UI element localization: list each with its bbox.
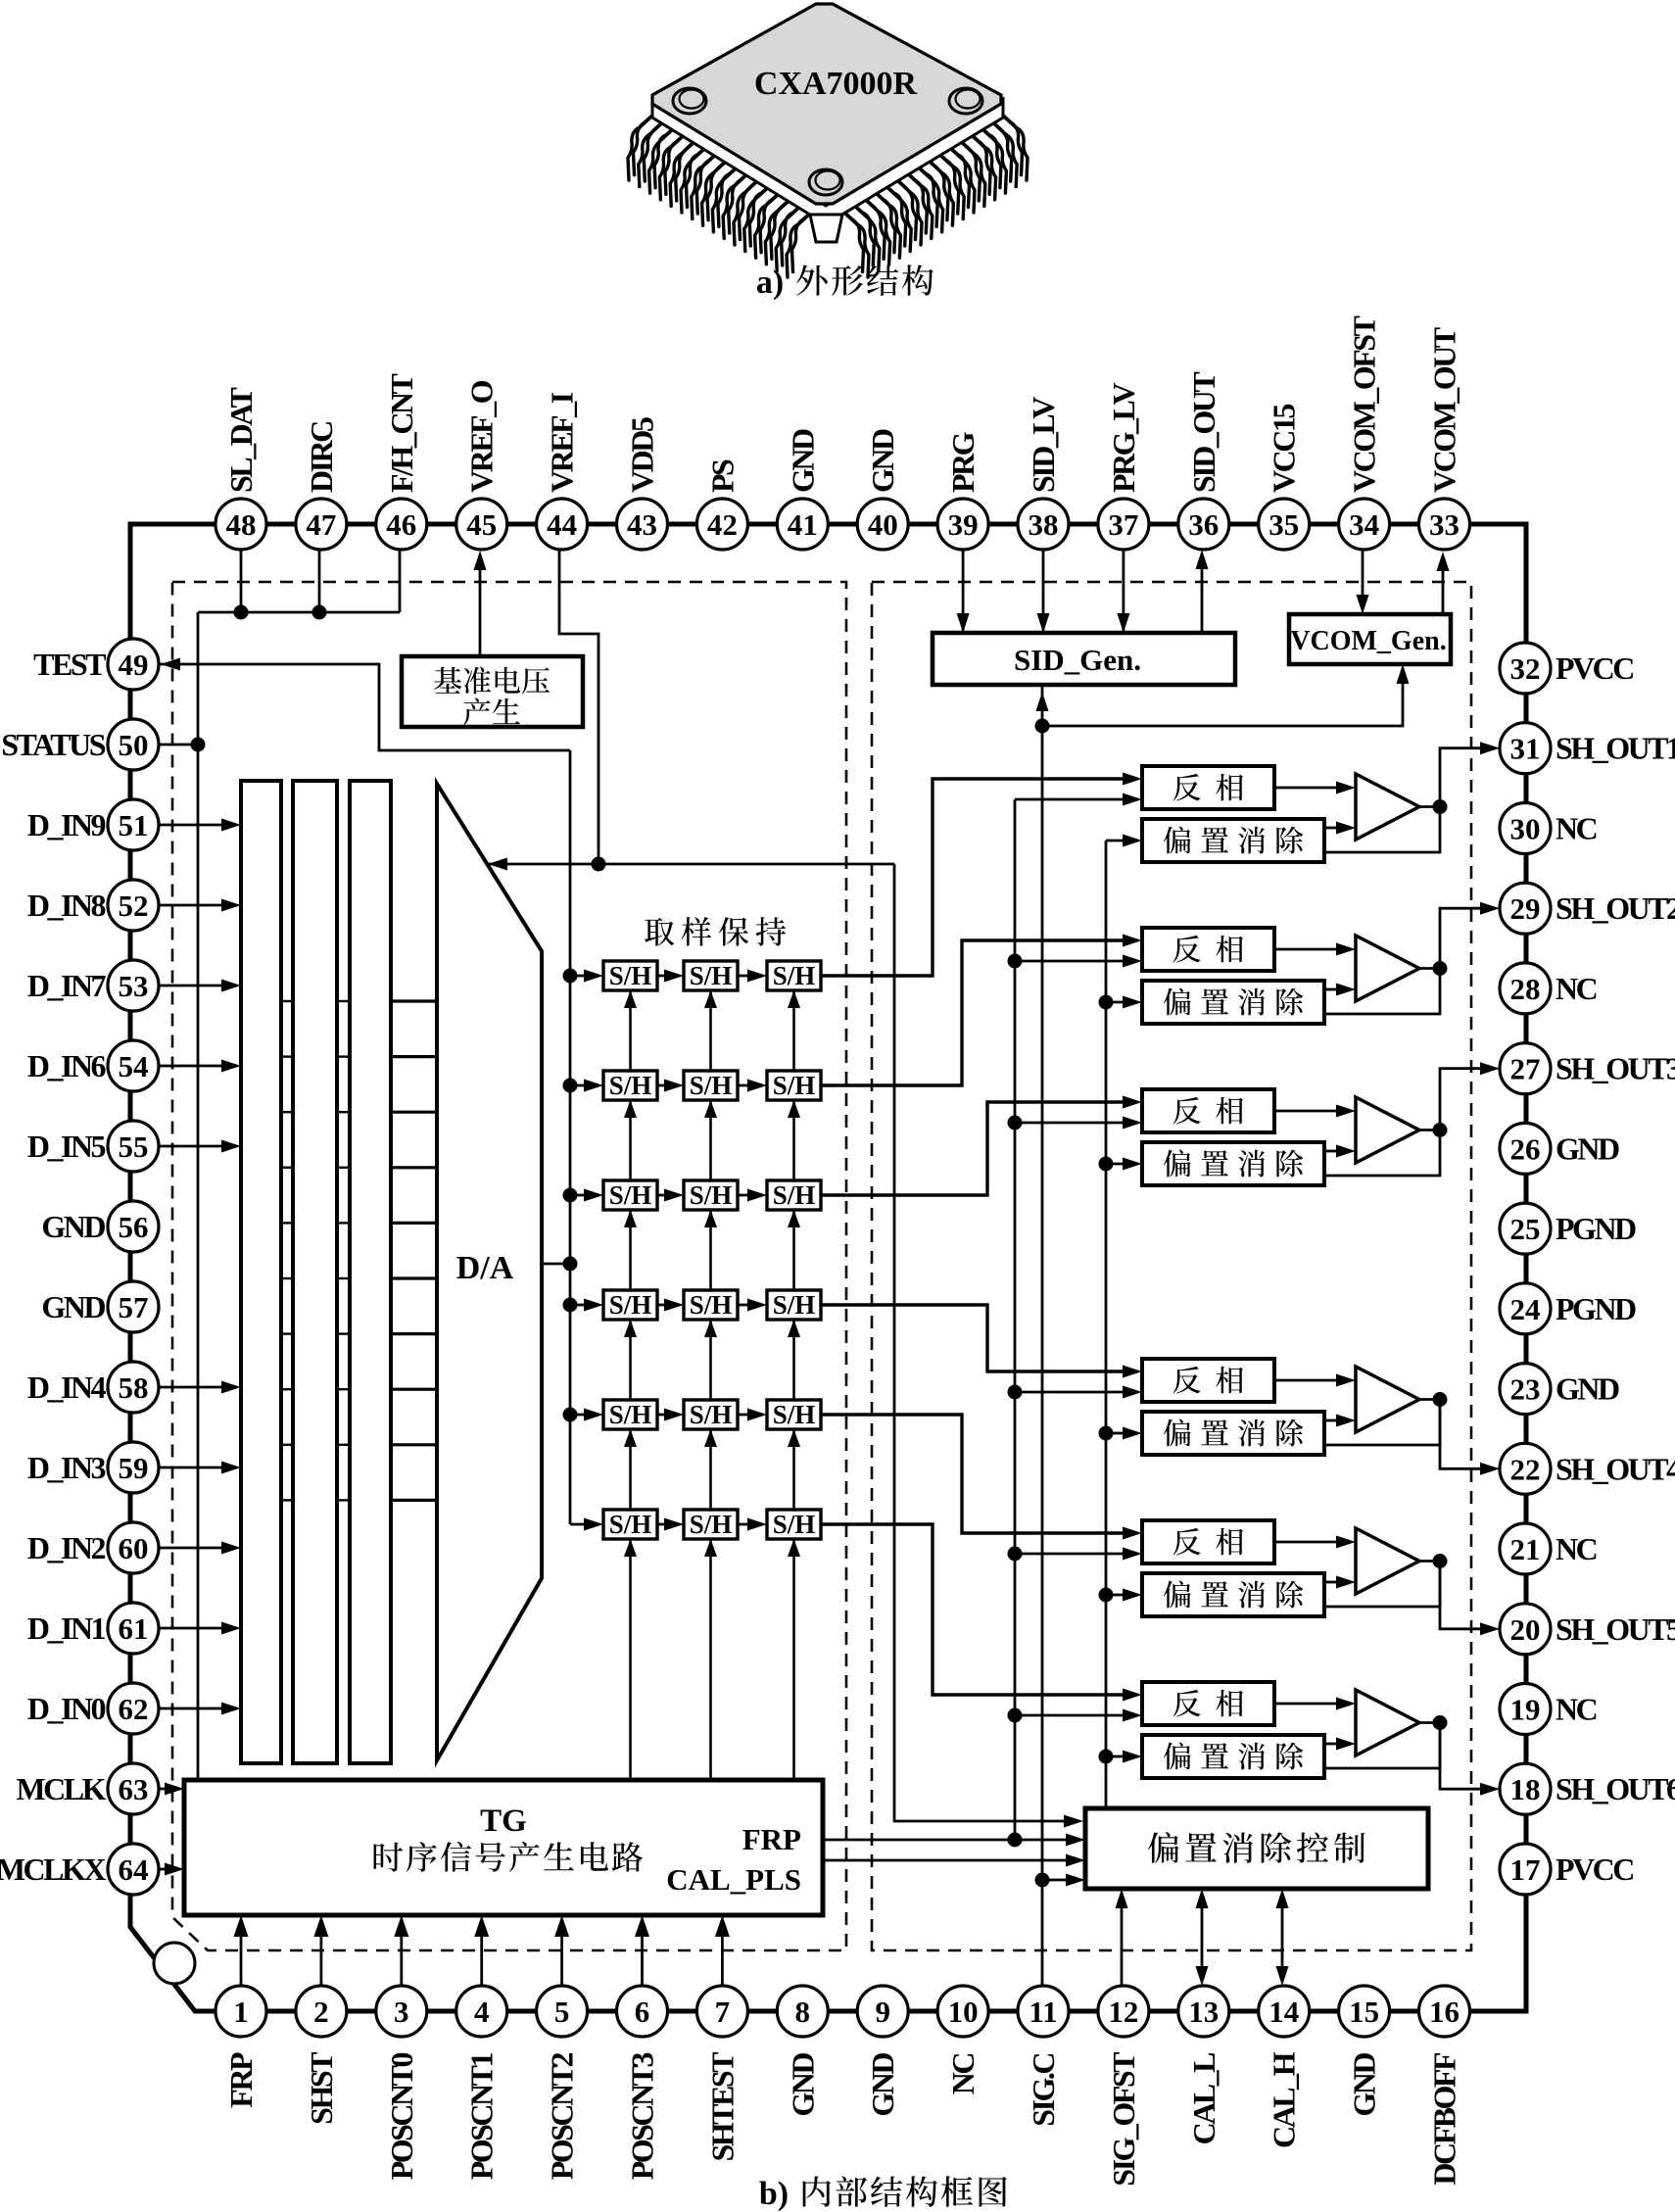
wire inverter to amp: [1274, 1541, 1338, 1544]
svg-text:13: 13: [1188, 1995, 1219, 2029]
wire to SH_OUT pin: [1440, 1069, 1493, 1130]
svg-text:S/H: S/H: [690, 961, 733, 990]
junction offset bus: [1099, 995, 1114, 1010]
pin 56 GND: [108, 1201, 159, 1252]
svg-text:VCOM_OFST: VCOM_OFST: [1347, 315, 1382, 493]
svg-text:DIRC: DIRC: [304, 422, 339, 493]
wire offset to amp: [1324, 1743, 1338, 1746]
block offset-cancel 偏置消除 5: [1142, 1573, 1324, 1616]
wire D_IN input: [159, 1145, 233, 1148]
svg-text:a): a): [756, 264, 784, 301]
amplifier 4: [1356, 1367, 1419, 1432]
wire polarity feed: [1015, 960, 1136, 963]
S/H clock arrowheads: [624, 990, 637, 1008]
wire offset feed: [1106, 1163, 1136, 1166]
wire offset to amp: [1324, 988, 1338, 991]
block S/H r6c1: [603, 1510, 657, 1539]
svg-text:45: 45: [466, 507, 497, 542]
svg-text:GND: GND: [41, 1209, 105, 1244]
wire polarity feed: [1015, 1391, 1136, 1394]
wire MCLKX into TG: [159, 1868, 177, 1871]
wire STATUS to bus: [159, 744, 198, 746]
svg-text:D_IN2: D_IN2: [27, 1530, 106, 1565]
wire FRP: [823, 1839, 1077, 1842]
block offset-cancel 偏置消除 3: [1142, 1142, 1324, 1185]
svg-text:D/A: D/A: [456, 1250, 514, 1286]
svg-text:GND: GND: [1347, 2053, 1382, 2117]
wire D_IN input: [159, 1547, 233, 1550]
wire to SH_OUT pin: [1440, 908, 1493, 968]
svg-text:60: 60: [119, 1531, 149, 1565]
svg-text:S/H: S/H: [609, 1510, 652, 1539]
svg-text:37: 37: [1108, 507, 1138, 542]
pin 50 STATUS: [108, 719, 159, 770]
block S/H r3c2: [684, 1180, 738, 1210]
svg-text:39: 39: [948, 507, 979, 542]
wire VREF_I from pin 44: [559, 550, 598, 864]
pin 52 D_IN8: [108, 880, 159, 931]
pin 55 D_IN5: [108, 1121, 159, 1172]
svg-text:GND: GND: [1555, 1130, 1619, 1166]
svg-text:CAL_PLS: CAL_PLS: [666, 1862, 801, 1897]
svg-text:S/H: S/H: [690, 1510, 733, 1539]
svg-text:23: 23: [1510, 1372, 1541, 1407]
svg-text:S/H: S/H: [773, 1510, 816, 1539]
wire inverter to amp: [1274, 948, 1338, 951]
pin 21 NC: [1500, 1523, 1551, 1574]
block S/H r6c2: [684, 1510, 738, 1539]
svg-text:GND: GND: [865, 429, 900, 493]
svg-text:47: 47: [306, 507, 336, 542]
wire CAL_H: [1281, 1908, 1284, 1966]
block SID_Gen: [933, 633, 1235, 685]
svg-text:SH_OUT2: SH_OUT2: [1555, 890, 1675, 926]
block inverter 反相 1: [1142, 766, 1274, 809]
svg-text:S/H: S/H: [773, 961, 816, 990]
wire S/H feed: [570, 975, 596, 978]
wire D_IN input: [159, 1467, 233, 1469]
pin 51 D_IN9: [108, 799, 159, 850]
svg-text:7: 7: [715, 1995, 731, 2029]
wire amp output: [1419, 1398, 1440, 1401]
pin 9 GND: [857, 1986, 908, 2037]
svg-text:3: 3: [394, 1995, 409, 2029]
svg-text:S/H: S/H: [609, 961, 652, 990]
svg-text:POSCNT1: POSCNT1: [464, 2053, 500, 2181]
svg-text:14: 14: [1268, 1995, 1299, 2029]
block S/H r5c3: [767, 1400, 821, 1429]
latch interconnect rungs: [281, 1000, 293, 1002]
wire offset feed: [1106, 1755, 1136, 1758]
pin 8 GND: [777, 1986, 828, 2037]
svg-text:30: 30: [1510, 812, 1541, 846]
svg-text:S/H: S/H: [690, 1180, 733, 1210]
svg-text:D_IN3: D_IN3: [27, 1450, 106, 1485]
pin 60 D_IN2: [108, 1522, 159, 1573]
pin 40 GND: [857, 499, 908, 550]
svg-text:b): b): [759, 2176, 789, 2212]
pin 22 SH_OUT4: [1500, 1443, 1551, 1494]
chip outline: [130, 524, 1526, 2011]
package dimple right: [949, 88, 982, 114]
svg-text:VCOM_Gen.: VCOM_Gen.: [1290, 626, 1446, 656]
wire offset feed: [1106, 1594, 1136, 1597]
wire pin4 to TG: [480, 1922, 483, 1986]
svg-text:56: 56: [119, 1210, 149, 1244]
svg-text:S/H: S/H: [690, 1290, 733, 1320]
junction VREF_I / D-A input: [592, 857, 606, 872]
wire PRG to SID_Gen: [962, 550, 965, 640]
svg-text:TG: TG: [480, 1803, 527, 1839]
svg-text:38: 38: [1029, 507, 1059, 542]
junction offset bus: [1099, 1426, 1114, 1441]
package pins right fan: [1005, 118, 1028, 180]
svg-text:S/H: S/H: [773, 1180, 816, 1210]
block inverter 反相 4: [1142, 1359, 1274, 1402]
svg-text:D_IN6: D_IN6: [27, 1048, 107, 1083]
pin 2 SHST: [296, 1986, 347, 2037]
svg-text:SID_OUT: SID_OUT: [1186, 372, 1221, 493]
svg-text:11: 11: [1029, 1995, 1057, 2029]
wire D_IN input: [159, 824, 233, 827]
wire S/H chain: [657, 1194, 676, 1197]
block S/H r2c1: [603, 1071, 657, 1100]
block S/H r1c2: [684, 961, 738, 990]
IC package CXA7000R (isometric view): [628, 4, 1028, 277]
svg-text:S/H: S/H: [690, 1071, 733, 1100]
dashed block right (analog section): [872, 582, 1471, 1950]
svg-text:32: 32: [1510, 651, 1541, 686]
svg-text:6: 6: [635, 1995, 650, 2029]
wire amp feedback: [1324, 1400, 1440, 1446]
svg-text:20: 20: [1510, 1612, 1541, 1647]
block inverter 反相 2: [1142, 928, 1274, 971]
block S/H r4c1: [603, 1290, 657, 1320]
wire D_IN input: [159, 1386, 233, 1389]
svg-text:GND: GND: [785, 429, 820, 493]
svg-text:42: 42: [707, 507, 738, 542]
pin 12 SIG_OFST: [1098, 1986, 1149, 2037]
svg-text:NC: NC: [1555, 971, 1597, 1006]
pin 61 D_IN1: [108, 1603, 159, 1654]
pin 4 POSCNT1: [456, 1986, 507, 2037]
pin 46 F/H_CNT: [376, 499, 427, 550]
wire amp output: [1419, 967, 1440, 970]
amplifier 2: [1356, 936, 1419, 1001]
junction offset bus: [1099, 1750, 1114, 1764]
block S/H r2c2: [684, 1071, 738, 1100]
svg-text:SHST: SHST: [304, 2052, 339, 2125]
wire polarity feed: [1015, 1122, 1136, 1125]
pin 35 VCC15: [1259, 499, 1310, 550]
svg-text:POSCNT2: POSCNT2: [545, 2053, 580, 2181]
svg-text:S/H: S/H: [690, 1400, 733, 1429]
svg-text:PGND: PGND: [1555, 1211, 1636, 1246]
junction amp output: [1433, 1392, 1448, 1407]
svg-text:SH_OUT5: SH_OUT5: [1555, 1611, 1675, 1647]
wire offset to amp: [1324, 1150, 1338, 1153]
pin 1 FRP: [215, 1986, 266, 2037]
svg-text:NC: NC: [1555, 1531, 1597, 1566]
svg-text:57: 57: [119, 1290, 149, 1324]
svg-text:SID_Gen.: SID_Gen.: [1014, 643, 1141, 677]
block offset-cancel 偏置消除 2: [1142, 981, 1324, 1024]
svg-text:19: 19: [1510, 1693, 1541, 1727]
wire CAL_PLS: [823, 1859, 1077, 1862]
block S/H r1c3: [767, 961, 821, 990]
svg-text:S/H: S/H: [773, 1290, 816, 1320]
wire S/H input bus: [569, 750, 572, 1524]
wire offset to amp: [1324, 827, 1338, 830]
wire CAL_L: [1201, 1908, 1204, 1966]
svg-text:4: 4: [474, 1995, 490, 2029]
svg-text:22: 22: [1510, 1452, 1541, 1486]
label sample-hold 取样保持: [645, 918, 674, 946]
wire to SH_OUT pin: [1440, 1723, 1493, 1790]
svg-text:40: 40: [868, 507, 898, 542]
svg-text:62: 62: [119, 1692, 149, 1726]
wire amp feedback: [1324, 807, 1440, 853]
amplifier 1: [1356, 774, 1419, 840]
svg-text:DCFBOFF: DCFBOFF: [1427, 2052, 1462, 2186]
pin 23 GND: [1500, 1364, 1551, 1415]
svg-text:NC: NC: [1555, 811, 1597, 846]
svg-text:41: 41: [788, 507, 818, 542]
svg-text:59: 59: [119, 1451, 149, 1485]
pin 53 D_IN7: [108, 960, 159, 1011]
junction amp output: [1433, 1715, 1448, 1730]
svg-text:43: 43: [627, 507, 657, 542]
amplifier 5: [1356, 1528, 1419, 1594]
svg-text:STATUS: STATUS: [1, 727, 105, 762]
wire MCLK into TG: [159, 1788, 177, 1791]
junction SIG.C VCOM branch: [1035, 719, 1050, 734]
svg-text:GND: GND: [1555, 1371, 1619, 1407]
svg-text:GND: GND: [865, 2053, 900, 2117]
svg-text:12: 12: [1108, 1995, 1138, 2029]
svg-text:TEST: TEST: [33, 647, 106, 682]
pin 15 GND: [1339, 1986, 1390, 2037]
pin 1 index mark: [154, 1943, 195, 1984]
pin 30 NC: [1500, 803, 1551, 854]
junction S/H feed: [563, 969, 578, 984]
pin 64 MCLKX: [108, 1844, 159, 1895]
pin 25 PGND: [1500, 1203, 1551, 1254]
pin 20 SH_OUT5: [1500, 1604, 1551, 1655]
junction D/A output: [563, 1257, 578, 1272]
svg-text:36: 36: [1188, 507, 1219, 542]
pin 28 NC: [1500, 963, 1551, 1014]
pin 48 SL_DAT: [215, 499, 266, 550]
junction amp output: [1433, 1123, 1448, 1137]
pin 36 SID_OUT: [1178, 499, 1229, 550]
wire offset feed: [1106, 1001, 1136, 1004]
svg-text:33: 33: [1429, 507, 1460, 542]
block D/A converter: [437, 784, 542, 1760]
wire D/A output: [542, 1263, 570, 1266]
wire S/H row6 output: [821, 1524, 1136, 1695]
wire S/H feed: [570, 1084, 596, 1087]
wire S/H row2 output: [821, 940, 1136, 1085]
wire offset to amp: [1324, 1419, 1338, 1422]
svg-text:CAL_H: CAL_H: [1267, 2051, 1302, 2148]
svg-text:PVCC: PVCC: [1555, 650, 1633, 686]
junction amp output: [1433, 799, 1448, 814]
wire D_IN input: [159, 1065, 233, 1068]
svg-text:SH_OUT3: SH_OUT3: [1555, 1051, 1675, 1086]
svg-text:GND: GND: [785, 2053, 820, 2117]
svg-text:21: 21: [1510, 1532, 1541, 1566]
svg-text:63: 63: [119, 1772, 149, 1806]
svg-text:PVCC: PVCC: [1555, 1851, 1633, 1887]
pin 58 D_IN4: [108, 1362, 159, 1413]
svg-text:SID_LV: SID_LV: [1026, 397, 1061, 493]
pin 13 CAL_L: [1178, 1986, 1229, 2037]
svg-text:PRG_LV: PRG_LV: [1106, 383, 1141, 493]
pin 38 SID_LV: [1018, 499, 1069, 550]
wire S/H feed: [570, 1414, 596, 1417]
svg-text:VREF_O: VREF_O: [464, 380, 500, 493]
pin 10 NC: [937, 1986, 988, 2037]
svg-text:PRG: PRG: [945, 431, 981, 493]
wire pin7 to TG: [721, 1922, 724, 1986]
wire polarity feed: [1015, 1553, 1136, 1556]
svg-text:50: 50: [119, 728, 149, 762]
svg-text:31: 31: [1510, 732, 1541, 766]
wire S/H feed: [570, 1194, 596, 1197]
amplifier 3: [1356, 1097, 1419, 1163]
block S/H r2c3: [767, 1071, 821, 1100]
svg-text:9: 9: [875, 1995, 890, 2029]
junction STATUS: [191, 738, 206, 752]
svg-text:GND: GND: [41, 1289, 105, 1324]
junction S/H feed: [563, 1298, 578, 1313]
svg-text:NC: NC: [945, 2054, 981, 2095]
wire offset bus: [1105, 841, 1108, 1808]
pin 59 D_IN3: [108, 1442, 159, 1493]
wire S/H row5 output: [821, 1415, 1136, 1533]
block reference voltage generator 基准电压产生: [402, 656, 583, 727]
svg-text:28: 28: [1510, 972, 1541, 1006]
wire amp feedback: [1324, 969, 1440, 1015]
pin 5 POSCNT2: [537, 1986, 588, 2037]
svg-text:POSCNT3: POSCNT3: [625, 2053, 660, 2181]
pin 63 MCLK: [108, 1763, 159, 1814]
pin 31 SH_OUT1: [1500, 723, 1551, 774]
svg-text:SIG_OFST: SIG_OFST: [1106, 2052, 1141, 2187]
wire D_IN input: [159, 904, 233, 907]
svg-text:26: 26: [1510, 1131, 1541, 1166]
block offset-cancel 偏置消除 1: [1142, 819, 1324, 862]
package dimple left: [673, 88, 706, 114]
package dimple bottom: [809, 169, 842, 195]
svg-text:24: 24: [1510, 1292, 1541, 1326]
junction S/H feed: [563, 1408, 578, 1422]
pin 39 PRG: [937, 499, 988, 550]
pin 47 DIRC: [296, 499, 347, 550]
junction polarity bus: [1008, 1385, 1023, 1400]
junction pin48 bus: [234, 605, 249, 620]
wire D_IN input: [159, 985, 233, 987]
wire amp output: [1419, 1129, 1440, 1131]
pin 44 VREF_I: [537, 499, 588, 550]
svg-text:S/H: S/H: [609, 1180, 652, 1210]
svg-text:8: 8: [795, 1995, 811, 2029]
wire VCOM_OFST to VCOM_Gen: [1362, 550, 1364, 607]
pin 27 SH_OUT3: [1500, 1043, 1551, 1094]
pin 14 CAL_H: [1259, 1986, 1310, 2037]
svg-text:SIG.C: SIG.C: [1026, 2054, 1061, 2127]
wire S/H chain: [657, 1523, 676, 1526]
svg-text:S/H: S/H: [609, 1290, 652, 1320]
pin 29 SH_OUT2: [1500, 883, 1551, 934]
wire offset to amp: [1324, 1581, 1338, 1584]
svg-text:58: 58: [119, 1370, 149, 1405]
junction offset bus: [1099, 1588, 1114, 1603]
wire pin5 to TG: [560, 1922, 563, 1986]
junction amp output: [1433, 1554, 1448, 1568]
wire D/A reference input: [487, 863, 894, 866]
svg-text:PS: PS: [704, 459, 740, 493]
wire PRG_LV to SID_Gen: [1123, 550, 1125, 640]
pin 43 VDD5: [617, 499, 668, 550]
svg-text:53: 53: [119, 969, 149, 1003]
svg-text:25: 25: [1510, 1212, 1541, 1246]
wire amp output: [1419, 1560, 1440, 1563]
wire inverter to amp: [1274, 1110, 1338, 1113]
junction S/H feed: [563, 1079, 578, 1093]
wire SIG.C bus: [1041, 685, 1044, 1986]
pin 33 VCOM_OUT: [1419, 499, 1470, 550]
wire amp feedback: [1324, 1562, 1440, 1608]
svg-text:VDD5: VDD5: [625, 417, 660, 493]
junction polarity bus: [1008, 1708, 1023, 1723]
svg-text:18: 18: [1510, 1772, 1541, 1806]
svg-text:1: 1: [233, 1995, 249, 2029]
pin 26 GND: [1500, 1123, 1551, 1174]
svg-text:POSCNT0: POSCNT0: [384, 2053, 419, 2181]
dashed block left (digital section): [172, 582, 846, 1950]
wire amp output: [1419, 1721, 1440, 1724]
svg-text:51: 51: [119, 808, 149, 842]
wire S/H feed: [570, 1304, 596, 1307]
wire D/A ref to offset control: [894, 864, 1077, 1821]
svg-text:FRP: FRP: [742, 1822, 801, 1856]
pin 45 VREF_O: [456, 499, 507, 550]
wire amp output: [1419, 805, 1440, 808]
junction offset bus: [1099, 1157, 1114, 1172]
svg-text:MCLK: MCLK: [16, 1771, 106, 1806]
wire pin1 to TG: [240, 1922, 243, 1986]
package top face: [652, 4, 1001, 204]
wire pin6 to TG: [641, 1922, 644, 1986]
svg-text:44: 44: [547, 507, 577, 542]
svg-text:SL_DAT: SL_DAT: [223, 388, 259, 493]
wire S/H chain: [657, 1084, 676, 1087]
wire S/H row3 output: [821, 1102, 1136, 1195]
wire D_IN input: [159, 1707, 233, 1710]
wire inverter to amp: [1274, 1703, 1338, 1706]
pin 42 PS: [696, 499, 747, 550]
svg-text:PGND: PGND: [1555, 1291, 1636, 1326]
svg-text:FRP: FRP: [223, 2052, 259, 2108]
wire to SH_OUT pin: [1440, 748, 1493, 807]
wire TEST output: [160, 664, 570, 750]
block S/H r3c3: [767, 1180, 821, 1210]
junction S/H feed: [563, 1188, 578, 1203]
wire SID_LV to SID_Gen: [1042, 550, 1045, 640]
pin 19 NC: [1500, 1684, 1551, 1735]
